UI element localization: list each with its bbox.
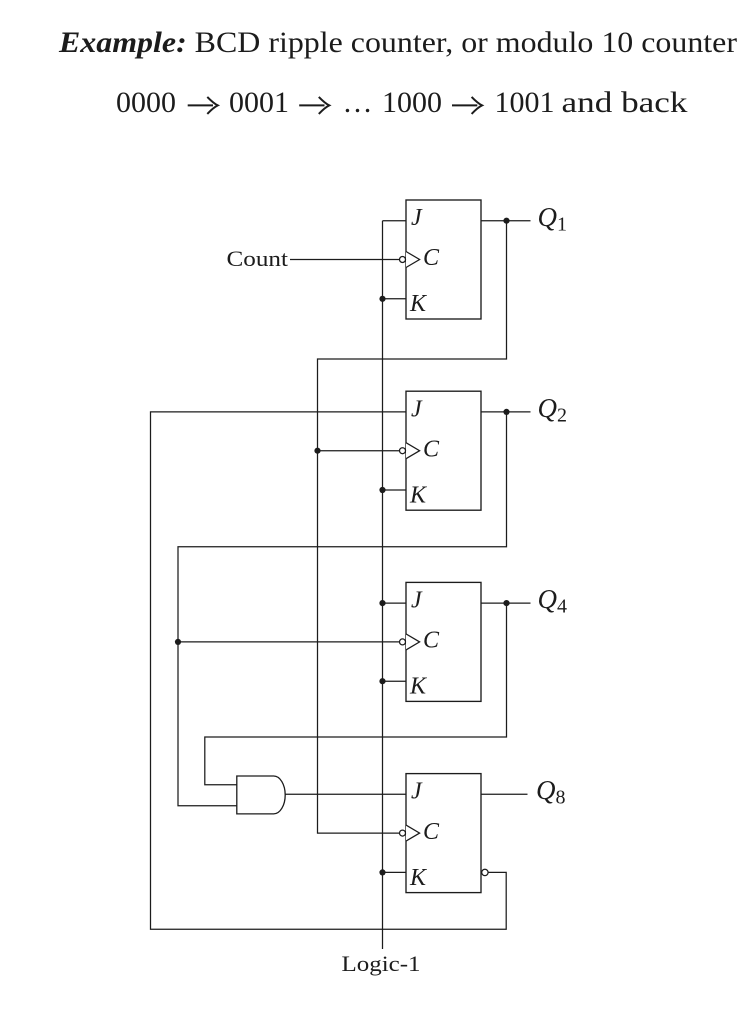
svg-text:J: J [411,779,423,805]
wire U1 K stub [383,298,407,300]
wire Q8 output [481,793,528,795]
svg-text:Q: Q [538,584,558,614]
complement bubble U4 Q' [482,869,488,875]
flip-flop U4 [400,774,482,893]
svg-text:J: J [411,205,423,231]
flip-flop U1 [400,200,482,319]
svg-text:1001: 1001 [495,86,555,119]
wire Count to U1 clock [290,259,400,261]
wire Q2 output [481,411,531,413]
wire AND output to U4 J [285,793,406,795]
AND gate G1 [237,776,285,814]
junction dot U3 K [379,678,385,684]
wire Q4 feedback to AND input [205,603,507,785]
wire Q4 output [481,602,531,604]
wire U4 Q' feedback to U2 J [151,412,507,929]
svg-text:Q: Q [538,393,558,423]
svg-text:C: C [423,628,440,654]
wire Q1 branch to U2 clock [318,450,400,452]
junction dot Q1 to U2 clock [314,448,320,454]
svg-text:4: 4 [557,596,567,618]
junction dot U4 K [379,869,385,875]
wire Q1 output [481,220,531,222]
wire Q2 feedback [178,412,507,806]
svg-text:1000: 1000 [382,86,442,119]
wire Q1 feedback to clocks [318,221,507,833]
junction dot U3 J [379,600,385,606]
junction dot Q4 [503,600,509,606]
svg-text:J: J [411,588,423,614]
svg-text:1: 1 [557,214,567,236]
svg-text:K: K [409,865,428,891]
svg-text:0000: 0000 [116,86,176,119]
wire U2 K stub [383,489,407,491]
svg-text:Q: Q [538,202,558,232]
svg-text:K: K [409,482,428,508]
flip-flop U3 [400,582,482,701]
svg-text:Count: Count [227,246,289,271]
svg-text:C: C [423,819,440,845]
junction dot Q2 [503,409,509,415]
wire U4 K stub [383,871,407,873]
caption line 1 [58,26,737,59]
svg-text:K: K [409,291,428,317]
wire Logic-1 vertical [382,221,384,949]
svg-text:C: C [423,245,440,271]
svg-text:and back: and back [562,86,688,119]
svg-text:Example: BCD ripple counter, o: Example: BCD ripple counter, or modulo 1… [58,26,737,59]
svg-text:0001: 0001 [229,86,289,119]
caption line 2 [116,86,688,119]
svg-text:2: 2 [557,405,567,427]
svg-text:Q: Q [536,775,556,805]
svg-text:…: … [343,86,373,119]
svg-text:8: 8 [556,787,566,809]
svg-text:Logic-1: Logic-1 [342,951,421,976]
junction dot U1 K [379,296,385,302]
svg-text:C: C [423,436,440,462]
wire U3 J stub [383,602,407,604]
wire U1 J stub [383,220,407,222]
junction dot Q1 [503,218,509,224]
junction dot U2 K [379,487,385,493]
svg-text:K: K [409,674,428,700]
svg-text:J: J [411,396,423,422]
junction dot Q2 to U3 clock [175,639,181,645]
wire Q2 branch to U3 clock [178,641,400,643]
flip-flop U2 [400,391,482,510]
wire U3 K stub [383,680,407,682]
